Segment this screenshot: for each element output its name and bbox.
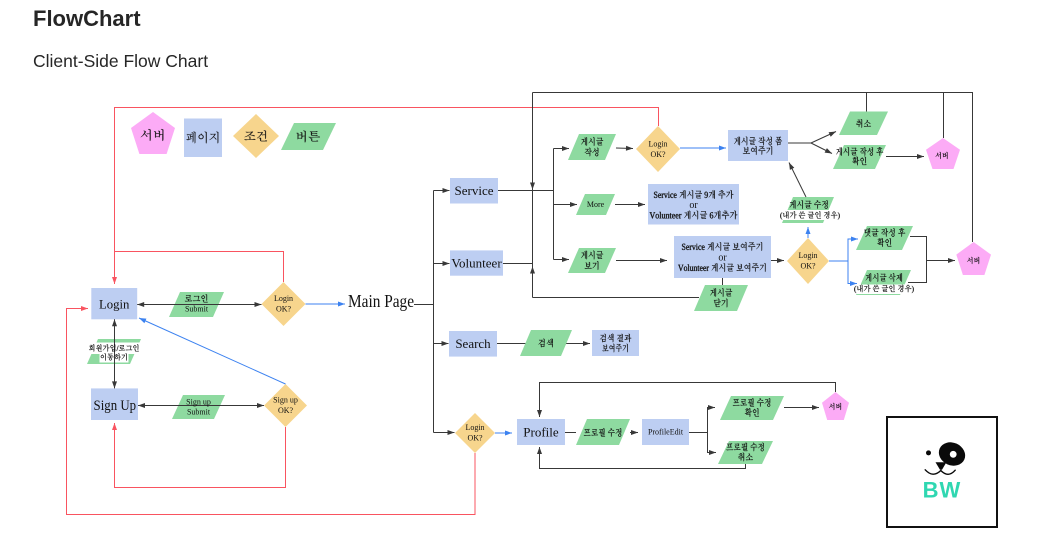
arm to Volunteer: [434, 263, 450, 265]
legend: button parallelogram: [281, 123, 336, 150]
BW logo box: [887, 417, 997, 527]
wire red from Login OK? (left): [115, 252, 284, 283]
title FlowChart: [33, 6, 141, 32]
wire blue Login OK? to Main Page: [306, 303, 346, 305]
svg-text:Login: Login: [465, 423, 484, 432]
node Profile box: [517, 419, 565, 445]
fork to confirm: [811, 143, 832, 154]
svg-text:OK?: OK?: [276, 305, 292, 314]
condition Login OK? (profile): [455, 413, 495, 453]
text form: [734, 137, 782, 146]
wire blue bracket right: [829, 260, 848, 262]
arm to More: [554, 204, 578, 206]
wire confirm to server (bottom): [784, 407, 819, 409]
fork from form: [788, 142, 811, 144]
wire cancel loop to Profile bottom: [540, 447, 746, 469]
node Login box: [91, 288, 137, 319]
arm to write-post: [554, 148, 570, 150]
wire blue Login OK? to form: [680, 147, 726, 149]
button cancel (top): [839, 112, 888, 136]
svg-text:Login: Login: [274, 294, 293, 303]
wire border to server (top): [943, 93, 945, 139]
arm to Service: [434, 190, 450, 192]
wire server loop to Profile top: [540, 383, 836, 418]
text search: [539, 339, 553, 348]
button profile-edit-confirm: [720, 396, 784, 420]
button close-post: [694, 285, 748, 311]
button view-post: [568, 248, 616, 273]
wire Profile to edit: [565, 432, 576, 434]
wire cancel up to border: [866, 93, 868, 112]
node show-posts box: [674, 236, 771, 278]
text go-signup: [89, 344, 139, 351]
legend labels: [141, 129, 164, 141]
button profile-edit: [576, 419, 630, 445]
svg-text:Login: Login: [99, 297, 130, 312]
text confirm-after-write: [836, 147, 883, 156]
condition Login OK? (top): [636, 126, 680, 172]
wire red top loop from Login OK? (top): [115, 108, 659, 285]
wire Login - Sign Up vertical: [114, 319, 116, 388]
text cancel (top): [856, 119, 871, 128]
button go-signup/login: [87, 339, 141, 364]
button search: [520, 330, 572, 356]
svg-text:Submit: Submit: [185, 305, 209, 314]
black bracket to server (mid): [908, 237, 927, 283]
subtitle: [33, 51, 208, 72]
condition Sign up OK?: [264, 384, 307, 427]
wire show-posts to close-post: [722, 278, 724, 285]
svg-text:OK?: OK?: [800, 262, 816, 271]
text confirm-comment: [864, 228, 905, 237]
wire Search to result: [497, 343, 590, 345]
wire Service right: [498, 190, 554, 192]
arm to Login OK? (profile): [434, 432, 455, 434]
wire Sign Up - Submit - Sign up OK?: [138, 405, 264, 407]
wire show-posts to Login OK?: [771, 260, 784, 262]
svg-text:OK?: OK?: [467, 434, 483, 443]
text show-posts: [682, 242, 762, 251]
inner spine vertical: [553, 149, 555, 260]
BW logo dog pupil: [950, 451, 957, 458]
condition Login OK? (left): [262, 282, 306, 326]
container bottom return: [533, 297, 700, 299]
label background delete-post caption: [854, 285, 914, 295]
wire red Sign up OK? loop: [115, 423, 286, 488]
button delete-post: [856, 270, 911, 295]
server pentagon (mid-right): [956, 242, 991, 275]
container top border: [533, 93, 973, 243]
svg-text:Login: Login: [648, 140, 667, 149]
svg-text:Sign up: Sign up: [186, 398, 211, 407]
svg-text:Search: Search: [455, 336, 491, 351]
server pentagon (bottom): [822, 392, 849, 420]
button write-post: [568, 134, 616, 160]
svg-text:Sign Up: Sign Up: [94, 398, 137, 414]
wire view-post to show-posts: [616, 260, 667, 262]
svg-text:Submit: Submit: [187, 408, 211, 417]
wire blue Sign up OK? to Login: [139, 318, 286, 384]
BW logo dog mouth: [925, 470, 955, 474]
text write-post: [581, 137, 603, 146]
button Login Submit: [169, 292, 224, 317]
BW logo dog eye patch: [935, 438, 969, 470]
BW logo dog left eye: [926, 450, 931, 455]
button Sign up Submit: [172, 395, 225, 419]
node ProfileEdit box: [642, 419, 689, 445]
wire red Login OK? (profile) loop to Login: [67, 309, 476, 515]
node search-result box: [592, 330, 639, 356]
button profile-edit-cancel: [718, 441, 773, 464]
wire Volunteer right: [503, 263, 533, 265]
wire write-post to Login OK?: [616, 147, 633, 150]
svg-text:Sign up: Sign up: [273, 396, 298, 405]
node Volunteer box: [450, 250, 503, 275]
legend: condition diamond: [233, 114, 279, 158]
wire blue Login OK? up to edit-post: [807, 227, 809, 238]
button confirm-after-write: [833, 145, 886, 169]
svg-text:Volunteer: Volunteer: [451, 255, 502, 270]
text profile-edit-cancel: [726, 443, 763, 452]
svg-text:Profile: Profile: [523, 424, 559, 439]
container left vertical: [532, 93, 534, 298]
button confirm-comment: [856, 226, 913, 250]
wire Main Page to spine: [414, 304, 434, 306]
node Sign Up box: [91, 388, 138, 420]
svg-text:or: or: [689, 200, 698, 211]
legend: server pentagon: [131, 112, 175, 154]
svg-text:More: More: [587, 200, 605, 209]
svg-text:BW: BW: [923, 478, 962, 503]
svg-text:Main Page: Main Page: [348, 291, 414, 311]
text close-post: [710, 288, 732, 297]
text view-post: [581, 251, 603, 260]
text profile-edit: [584, 428, 621, 437]
svg-text:Service: Service: [455, 183, 494, 198]
text delete-post: [866, 273, 902, 282]
arm to view-post: [554, 259, 570, 261]
node Service box: [450, 178, 498, 204]
text server (mid-right): [967, 257, 979, 264]
node Search box: [449, 331, 497, 357]
spine vertical: [433, 191, 435, 433]
label background go-signup: [89, 343, 140, 355]
wire edit-post diag to form: [789, 163, 806, 198]
svg-text:or: or: [718, 252, 727, 263]
button More: [576, 194, 615, 215]
condition Login OK? (mid-right): [787, 238, 829, 284]
svg-text:ProfileEdit: ProfileEdit: [648, 428, 684, 437]
node add-posts box: [648, 184, 739, 225]
legend: page rectangle: [184, 119, 222, 158]
text profile-edit-confirm: [733, 398, 770, 407]
node show-post-form box: [728, 130, 788, 161]
text search-result: [600, 334, 631, 342]
button edit-post: [782, 197, 834, 223]
arm to Search: [434, 343, 449, 345]
wire confirm to server: [886, 156, 924, 158]
server pentagon (top): [926, 138, 960, 169]
svg-text:Login: Login: [798, 251, 817, 260]
fork to cancel: [811, 132, 836, 144]
wire blue Login OK? to Profile: [495, 432, 512, 434]
BW logo dog nose: [936, 462, 947, 470]
text edit-post: [790, 200, 828, 209]
svg-text:OK?: OK?: [278, 406, 294, 415]
text add-posts: [654, 190, 733, 199]
fork from ProfileEdit: [689, 432, 708, 434]
text Login Submit: [185, 294, 208, 302]
wire edit to ProfileEdit: [630, 432, 638, 434]
wire Login - Submit - Login OK?: [137, 304, 261, 306]
svg-text:OK?: OK?: [650, 150, 666, 159]
text server (top): [936, 152, 948, 159]
wire More to add-posts: [615, 204, 645, 206]
text server (bottom): [829, 403, 841, 410]
label background edit-post caption: [779, 210, 841, 220]
